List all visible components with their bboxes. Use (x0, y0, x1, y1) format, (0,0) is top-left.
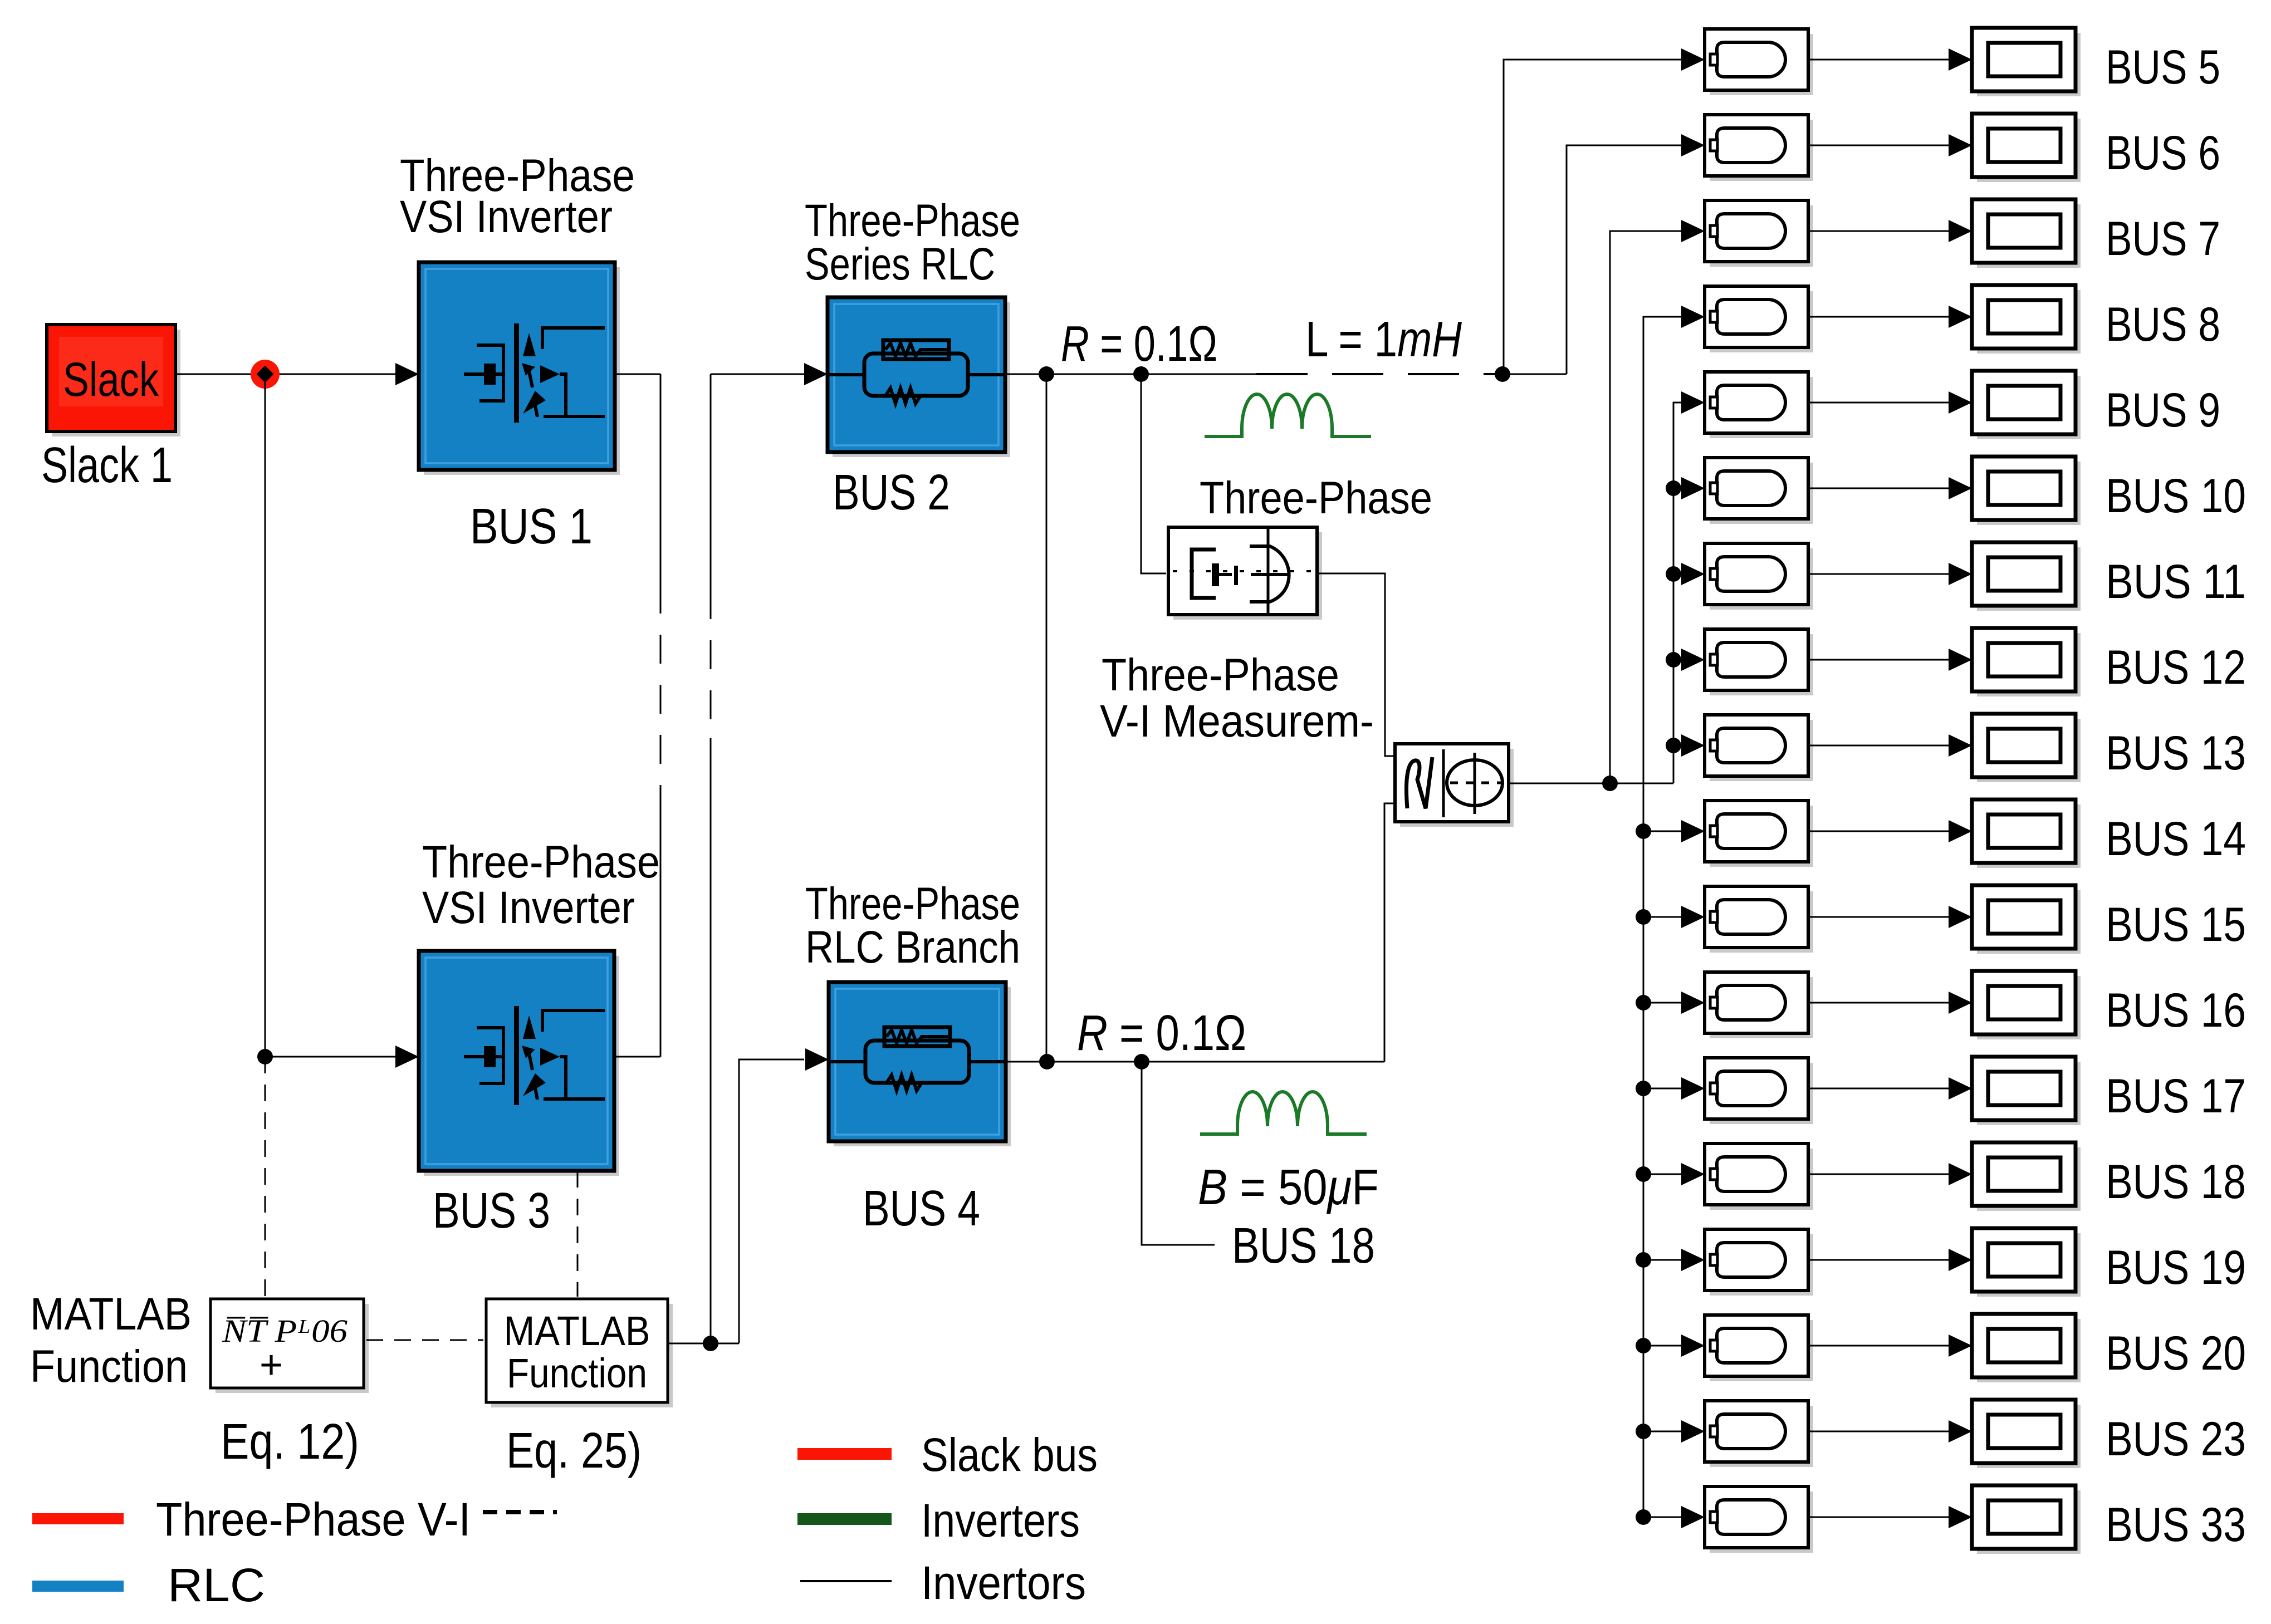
wire BUS 19 load to scope (1808, 1249, 1972, 1271)
load block for BUS 19 (1705, 1229, 1813, 1296)
wire tap into BUS 14 (1643, 820, 1705, 842)
legend swatch RLC (blue line) (32, 1581, 124, 1592)
scope block for BUS 8 (1972, 285, 2081, 354)
inverter block BUS 3 (Three-Phase VSI Inverter) (419, 951, 619, 1176)
label BUS 16 (2106, 984, 2246, 1037)
label BUS 10 (2106, 469, 2246, 523)
load block for BUS 10 (1705, 458, 1813, 524)
node junction lower rail a (1039, 1054, 1055, 1069)
wire top rail R=0.1 section (1005, 374, 1256, 375)
wire BUS 20 load to scope (1808, 1334, 1972, 1357)
wire BUS 9 load to scope (1808, 391, 1972, 414)
svg-text:VSI Inverter: VSI Inverter (400, 192, 613, 242)
label BUS 7 (2106, 212, 2220, 266)
svg-text:Three-Phase: Three-Phase (1200, 473, 1432, 523)
label BUS 17 (2106, 1069, 2246, 1123)
label Eq. 25) (506, 1423, 642, 1479)
wire BUS 6 load to scope (1808, 134, 1972, 156)
title Three-Phase V-I Measurem- (1100, 650, 1374, 747)
node tap BUS11 (1666, 566, 1681, 582)
label R = 0.1 ohm (lower) (1077, 1005, 1246, 1061)
label BUS 11 (2106, 555, 2246, 609)
svg-text:BUS 9: BUS 9 (2106, 384, 2220, 437)
legend swatch Inverters (green line) (797, 1513, 892, 1525)
scope block for BUS 16 (1972, 971, 2081, 1039)
wire tap into BUS 23 (1643, 1420, 1705, 1443)
svg-text:V-I Measurem-: V-I Measurem- (1100, 696, 1374, 747)
node tap BUS 33 (1636, 1509, 1651, 1525)
svg-text:BUS 6: BUS 6 (2106, 126, 2220, 180)
load block for BUS 7 (1705, 200, 1813, 267)
load block for BUS 15 (1705, 886, 1813, 953)
label BUS 9 (2106, 384, 2220, 437)
svg-text:BUS 23: BUS 23 (2106, 1412, 2246, 1466)
wire dashed junction to MATLAB Eq.12 block (265, 1057, 266, 1299)
svg-text:BUS 2: BUS 2 (833, 465, 950, 521)
wire M output rail (1509, 783, 1673, 784)
load block for BUS 12 (1705, 629, 1813, 695)
svg-text:Slack 1: Slack 1 (41, 438, 173, 493)
svg-text:BUS 10: BUS 10 (2106, 469, 2246, 523)
svg-text:RLC: RLC (168, 1559, 265, 1611)
svg-text:RLC Branch: RLC Branch (805, 922, 1020, 973)
svg-text:BUS 16: BUS 16 (2106, 984, 2246, 1037)
label BUS 23 (2106, 1412, 2246, 1466)
svg-text:BUS 8: BUS 8 (2106, 298, 2220, 351)
scope block for BUS 7 (1972, 199, 2081, 268)
svg-text:Slack: Slack (63, 353, 159, 406)
scope block for BUS 19 (1972, 1228, 2081, 1297)
three-phase V-I measurement block (1168, 527, 1322, 620)
svg-text:L = 1mH: L = 1mH (1305, 312, 1462, 367)
label BUS 6 (2106, 126, 2220, 180)
scope block for BUS 5 (1972, 28, 2081, 96)
scope block for BUS 9 (1972, 371, 2081, 439)
load block for BUS 33 (1705, 1486, 1813, 1553)
node tap BUS 16 (1636, 995, 1651, 1010)
load block for BUS 14 (1705, 801, 1813, 867)
node tap BUS 23 (1636, 1424, 1651, 1439)
label R = 0.1 ohm (top) (1061, 316, 1217, 372)
wire vertical link BUS1-BUS3 outputs (solid/dashed/solid) (614, 374, 660, 1057)
legend label Three-Phase V-I (156, 1493, 471, 1546)
wire BUS 11 load to scope (1808, 563, 1972, 585)
label BUS 2 (833, 465, 950, 521)
svg-text:BUS 17: BUS 17 (2106, 1069, 2246, 1123)
scope block for BUS 14 (1972, 799, 2081, 868)
node tap BUS13 (1666, 738, 1681, 753)
svg-text:R = 0.1Ω: R = 0.1Ω (1061, 316, 1217, 372)
wire lower rail from BUS4 output (1006, 1061, 1384, 1063)
svg-text:Eq. 12): Eq. 12) (221, 1414, 359, 1470)
wire BUS 16 load to scope (1808, 992, 1972, 1014)
wire BUS1 output to corner (615, 374, 660, 375)
wire top rail dashed L=1mH section (1256, 373, 1498, 375)
scope block for BUS 11 (1972, 542, 2081, 611)
label BUS 18 node (1232, 1218, 1375, 1274)
label B = 50uF (1198, 1160, 1379, 1215)
title of BUS 2 (805, 195, 1020, 290)
load block for BUS 5 (1705, 29, 1813, 95)
wire BUS 13 load to scope (1808, 734, 1972, 757)
svg-text:Invertors: Invertors (921, 1557, 1086, 1609)
svg-text:BUS 11: BUS 11 (2106, 555, 2246, 609)
svg-text:BUS 4: BUS 4 (863, 1181, 980, 1237)
legend label Invertors (921, 1557, 1086, 1609)
svg-text:Inverters: Inverters (921, 1494, 1080, 1547)
node junction top rail a (1039, 366, 1054, 382)
load block for BUS 11 (1705, 543, 1813, 610)
wire tap into BUS 15 (1643, 906, 1705, 928)
svg-text:BUS 12: BUS 12 (2106, 641, 2246, 694)
svg-text:BUS 20: BUS 20 (2106, 1327, 2246, 1380)
inverter block BUS 1 (Three-Phase VSI Inverter) (419, 262, 620, 475)
load block for BUS 13 (1705, 715, 1813, 781)
RLC block BUS 2 (Three-Phase Series RLC) (828, 297, 1010, 457)
wire feeder BUS9 with taps BUS10-13 (1673, 391, 1705, 783)
svg-text:BUS 3: BUS 3 (433, 1183, 550, 1239)
label BUS 4 (863, 1181, 980, 1237)
title of BUS 3 (422, 837, 660, 933)
wire vertical from junction down to BUS3 input (265, 374, 266, 1057)
wire tap into BUS 18 (1643, 1163, 1705, 1185)
legend label Inverters (921, 1494, 1080, 1547)
scope block for BUS 20 (1972, 1314, 2081, 1382)
node tap BUS 17 (1636, 1081, 1651, 1096)
label Eq. 12) (221, 1414, 359, 1470)
wire BUS 15 load to scope (1808, 906, 1972, 928)
scope block for BUS 15 (1972, 885, 2081, 954)
MATLAB Function block Eq.12 (211, 1299, 369, 1393)
measurement block M (1395, 744, 1514, 827)
svg-text:BUS 5: BUS 5 (2106, 41, 2220, 94)
svg-text:Series RLC: Series RLC (805, 239, 995, 290)
svg-text:BUS 13: BUS 13 (2106, 727, 2246, 780)
legend swatch Slack bus (red line) (797, 1448, 892, 1460)
label BUS 1 (470, 499, 593, 555)
svg-text:Three-Phase: Three-Phase (1102, 650, 1339, 700)
node tap BUS 19 (1636, 1252, 1651, 1268)
wire BUS 8 load to scope (1808, 306, 1972, 328)
node red junction on slack wire (251, 360, 280, 389)
node junction lower rail b (1134, 1054, 1149, 1069)
wire long bus feeder BUS8 and BUS14-33 (1643, 306, 1705, 1517)
title of BUS 1 (400, 150, 635, 242)
wire tap into BUS13 (1673, 734, 1705, 757)
wire vertical link rail-to-rail (1046, 374, 1048, 1062)
node tap BUS 15 (1636, 909, 1651, 925)
label BUS 14 (2106, 812, 2246, 866)
svg-text:Three-Phase V-I: Three-Phase V-I (156, 1493, 471, 1546)
legend swatch Invertors (thin black line) (800, 1580, 892, 1582)
wire BUS 33 load to scope (1808, 1506, 1972, 1528)
label BUS 18 (2106, 1155, 2246, 1209)
label L = 1mH (1305, 312, 1462, 367)
label BUS 19 (2106, 1241, 2246, 1294)
scope block for BUS 12 (1972, 628, 2081, 696)
svg-text:Function: Function (30, 1341, 188, 1392)
title of BUS 4 (805, 879, 1020, 973)
wire slack output (175, 363, 419, 385)
legend dashed sample (483, 1510, 557, 1514)
svg-text:N̅T̅ Pᴸ06: N̅T̅ Pᴸ06 (222, 1313, 347, 1349)
wire tap into BUS 20 (1643, 1334, 1705, 1357)
wire BUS 23 load to scope (1808, 1420, 1972, 1443)
label BUS 5 (2106, 41, 2220, 94)
wire feeder BUS5 (1502, 48, 1705, 374)
svg-text:B = 50μF: B = 50μF (1198, 1160, 1379, 1215)
svg-text:Eq. 25): Eq. 25) (506, 1423, 642, 1479)
wire vertical into BUS2 input (from MATLAB Eq.25 junction) (710, 374, 712, 1343)
node tap BUS12 (1666, 652, 1681, 668)
label BUS 20 (2106, 1327, 2246, 1380)
scope block for BUS 6 (1972, 114, 2081, 182)
MATLAB Function block Eq.25 (486, 1299, 673, 1407)
wire Eq.25 output up to BUS4 input (739, 1048, 829, 1343)
svg-text:MATLAB: MATLAB (504, 1308, 650, 1354)
load block for BUS 16 (1705, 972, 1813, 1038)
node junction on M output (1602, 776, 1618, 791)
label Three-Phase (under top inductor) (1200, 473, 1432, 523)
svg-text:Function: Function (507, 1350, 647, 1396)
svg-text:BUS 19: BUS 19 (2106, 1241, 2246, 1294)
svg-text:BUS 33: BUS 33 (2106, 1498, 2246, 1552)
RLC block BUS 4 (Three-Phase RLC Branch) (829, 982, 1011, 1146)
load block for BUS 20 (1705, 1315, 1813, 1381)
scope block for BUS 13 (1972, 714, 2081, 782)
wire BUS 17 load to scope (1808, 1077, 1972, 1100)
load block for BUS 17 (1705, 1058, 1813, 1124)
svg-text:Slack bus: Slack bus (921, 1429, 1098, 1481)
wire BUS 12 load to scope (1808, 649, 1972, 671)
legend label RLC (168, 1559, 265, 1611)
wire BUS 10 load to scope (1808, 477, 1972, 499)
wire tap into BUS 17 (1643, 1077, 1705, 1100)
node junction top rail c (1495, 366, 1510, 382)
legend label Slack bus (921, 1429, 1098, 1481)
scope block for BUS 18 (1972, 1142, 2081, 1211)
load block for BUS 18 (1705, 1144, 1813, 1210)
wire BUS 14 load to scope (1808, 820, 1972, 842)
svg-text:Three-Phase: Three-Phase (422, 837, 660, 887)
svg-text:BUS 7: BUS 7 (2106, 212, 2220, 266)
wire Eq.25 output (668, 1343, 739, 1345)
wire BUS 18 load to scope (1808, 1163, 1972, 1185)
svg-text:BUS 14: BUS 14 (2106, 812, 2246, 866)
scope block for BUS 17 (1972, 1057, 2081, 1125)
label BUS 12 (2106, 641, 2246, 694)
load block for BUS 8 (1705, 286, 1813, 352)
label BUS 3 (433, 1183, 550, 1239)
node tap BUS 18 (1636, 1166, 1651, 1182)
wire tap into BUS 16 (1643, 992, 1705, 1014)
wire tap into BUS11 (1673, 563, 1705, 585)
node junction on Eq.25 output (703, 1336, 718, 1351)
svg-text:VSI Inverter: VSI Inverter (422, 882, 635, 933)
load block for BUS 9 (1705, 372, 1813, 438)
legend swatch Three-Phase V-I (red line) (32, 1513, 124, 1524)
wire V-I output to M block (1317, 573, 1394, 756)
wire M block lower input from lower rail (1384, 803, 1395, 1062)
node tap BUS 14 (1636, 823, 1651, 839)
inductor symbol (top, L) (1205, 394, 1371, 436)
label BUS 15 (2106, 898, 2246, 951)
wire BUS 5 load to scope (1808, 48, 1972, 71)
node junction top rail b (1133, 366, 1149, 382)
wire feeder BUS7 (1610, 220, 1705, 783)
node junction at BUS3 input wire (257, 1049, 273, 1064)
scope block for BUS 33 (1972, 1485, 2081, 1554)
wire into BUS2 (711, 363, 828, 385)
scope block for BUS 23 (1972, 1400, 2081, 1468)
svg-text:BUS 18: BUS 18 (2106, 1155, 2246, 1209)
wire junction b down into V-I block (1141, 374, 1166, 573)
wire tap into BUS 33 (1643, 1506, 1705, 1528)
svg-text:MATLAB: MATLAB (30, 1289, 192, 1340)
scope block for BUS 10 (1972, 457, 2081, 525)
svg-text:BUS 15: BUS 15 (2106, 898, 2246, 951)
wire feeder BUS6 (1567, 134, 1705, 374)
svg-text:BUS 1: BUS 1 (470, 499, 593, 555)
wire dashed Eq.12 to Eq.25 (366, 1340, 483, 1341)
svg-text:+: + (260, 1343, 283, 1387)
wire stub to BUS 18 node (1142, 1062, 1215, 1245)
wire tap into BUS12 (1673, 649, 1705, 671)
label Slack 1 (41, 438, 173, 493)
svg-text:BUS 18: BUS 18 (1232, 1218, 1375, 1274)
svg-text:R = 0.1Ω: R = 0.1Ω (1077, 1005, 1246, 1061)
wire tap into BUS 19 (1643, 1249, 1705, 1271)
load block for BUS 23 (1705, 1401, 1813, 1467)
wire into BUS3 (265, 1046, 419, 1068)
node tap BUS 20 (1636, 1338, 1651, 1353)
label BUS 13 (2106, 727, 2246, 780)
wire top rail to BUS6 feeder (1498, 374, 1567, 375)
label BUS 8 (2106, 298, 2220, 351)
node tap BUS10 (1666, 480, 1681, 496)
label BUS 33 (2106, 1498, 2246, 1552)
load block for BUS 6 (1705, 115, 1813, 181)
wire BUS 7 load to scope (1808, 220, 1972, 242)
label MATLAB Function (left) (30, 1289, 192, 1392)
slack bus source block Slack 1 (47, 325, 180, 436)
inductor symbol (lower, B) (1200, 1092, 1367, 1134)
wire tap into BUS10 (1673, 477, 1705, 499)
wire dashed BUS3 bottom to Eq.25 (577, 1171, 579, 1297)
